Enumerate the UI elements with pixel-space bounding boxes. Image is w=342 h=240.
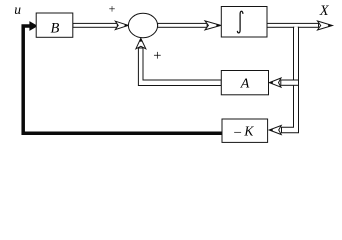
- arrowhead (hollow) into integrator: [205, 21, 221, 30]
- arrowhead (hollow) into -K right side: [269, 126, 281, 135]
- junction: break of bottom stroke of output line over vertical branch: [294, 27, 298, 29]
- block A: [221, 71, 268, 95]
- svg-text:X: X: [319, 3, 330, 19]
- svg-text:– K: – K: [233, 124, 254, 139]
- svg-text:u: u: [14, 2, 21, 17]
- svg-text:+: +: [109, 2, 116, 16]
- arrowhead (hollow) into summing circle: [115, 21, 128, 29]
- block integrator: [221, 7, 267, 38]
- arrowhead (hollow) output X: [318, 21, 333, 30]
- block B: [36, 13, 73, 37]
- wire: A output hollow line, left then up into summing circle: [138, 48, 221, 86]
- arrowhead (hollow) up into summing circle: [136, 38, 146, 49]
- wire: hollow double line integrator to output X: [267, 23, 319, 27]
- wire: hollow double line B to summing circle: [73, 23, 118, 27]
- svg-text:A: A: [240, 77, 250, 92]
- wire: right vertical hollow double line with branch to -K: [282, 27, 299, 133]
- wire: branch hollow line into A block: [281, 80, 299, 85]
- wire: hollow double line summing circle to integrator: [158, 23, 208, 27]
- svg-text:B: B: [50, 20, 59, 36]
- arrowhead (hollow) into A right side: [269, 78, 281, 87]
- summing junction circle: [128, 13, 157, 37]
- wire: thick feedback line from -K output, left along bottom, up left side, into B input: [23, 26, 222, 133]
- svg-text:+: +: [153, 48, 161, 64]
- block -K: [222, 119, 268, 142]
- arrowhead (filled) into B input: [29, 21, 38, 31]
